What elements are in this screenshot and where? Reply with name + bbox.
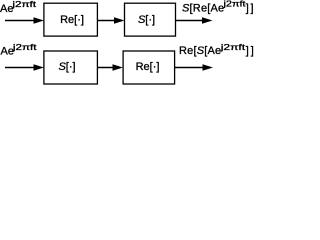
node: bottom output label Re[S[Ae^j2pift]] — [179, 44, 256, 58]
svg-text:j2πft: j2πft — [11, 0, 36, 9]
node: top output label S[Re[Ae^j2pift]] — [182, 0, 255, 14]
wire: top output arrow — [176, 17, 213, 24]
svg-text:Re[·]: Re[·] — [136, 61, 160, 73]
svg-text:j2πft: j2πft — [220, 44, 246, 53]
svg-text:j2πft: j2πft — [12, 43, 37, 52]
block: S[.] operator (bottom row) — [44, 51, 98, 84]
wire: top input arrow — [5, 17, 44, 24]
block: S[.] operator (top row) — [125, 3, 176, 36]
svg-text:Re[S[Ae: Re[S[Ae — [179, 45, 221, 57]
svg-text:j2πft: j2πft — [222, 0, 246, 9]
block: Re[.] operator (top row) — [44, 3, 98, 36]
svg-text:S[·]: S[·] — [138, 14, 155, 26]
wire: bottom input arrow — [5, 64, 44, 71]
svg-text:]]: ]] — [246, 45, 255, 57]
svg-text:Re[·]: Re[·] — [60, 14, 84, 26]
block: Re[.] operator (bottom row) — [123, 51, 175, 84]
svg-text:S[Re[Ae: S[Re[Ae — [182, 2, 224, 14]
node: bottom input signal label Ae^j2pift — [1, 43, 37, 57]
wire: arrow from Re block to S block (top row) — [98, 17, 125, 24]
wire: arrow from S block to Re block (bottom row) — [98, 64, 124, 71]
svg-text:]]: ]] — [246, 2, 255, 14]
node: top input signal label Ae^j2pift — [0, 0, 36, 15]
svg-text:S[·]: S[·] — [58, 61, 75, 73]
wire: bottom output arrow — [175, 64, 214, 71]
